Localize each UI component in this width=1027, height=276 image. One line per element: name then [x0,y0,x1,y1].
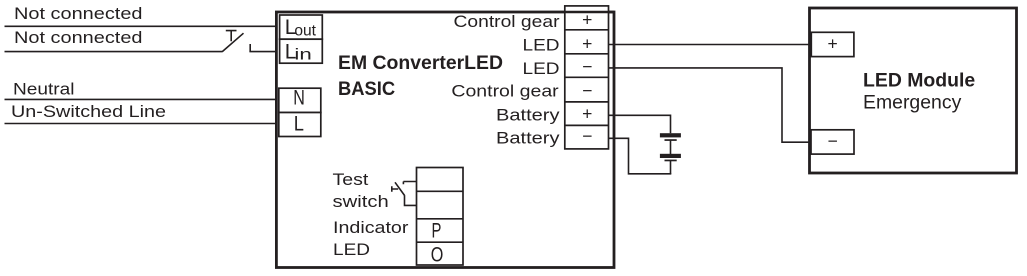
svg-text:Test: Test [333,171,369,189]
wire: EM box top edge crossing strip cell 1 [565,11,614,14]
svg-text:Control gear: Control gear [454,13,561,31]
terminal box Lout [280,15,323,39]
svg-text:Battery: Battery [496,106,560,124]
svg-text:LED: LED [333,241,370,259]
EM converter box outline [276,12,614,268]
module terminal box - [811,130,854,154]
svg-text:Indicator: Indicator [333,219,409,237]
svg-text:Control gear: Control gear [451,82,559,100]
wire: Neutral to N [5,98,278,100]
terminal label Lout text [285,16,317,40]
svg-text:Neutral: Neutral [13,80,75,98]
wire: LED- to module - [609,68,810,142]
wire: Not connected line 1 to Lout [5,25,278,27]
svg-text:Battery: Battery [496,129,560,147]
wire: Battery+ to battery top [609,115,671,133]
svg-text:Emergency: Emergency [863,92,962,113]
svg-text:+: + [827,33,837,53]
svg-text:−: − [582,57,592,77]
battery BT1 plates [660,133,681,161]
wire: battery bottom lead [670,161,672,174]
wire: LED+ to module + [609,44,810,46]
wire: test switch bottom contact to strip row2 [405,195,417,205]
switch S2 blade (test switch, open) [395,182,405,195]
wire: switch to Lin [249,51,277,53]
svg-text:−: − [582,81,592,101]
right terminal strip outline [565,6,609,149]
right terminal strip dividers [565,30,609,126]
svg-text:+: + [582,104,592,124]
wire: battery inter-cell link [670,141,672,154]
module terminal box + [811,32,854,56]
wire: Un-Switched Line to L [5,123,278,125]
wire: test switch top contact to strip row1 [403,182,416,185]
switch S2 actuator T [392,186,398,191]
svg-text:in: in [294,47,311,64]
svg-text:Not connected: Not connected [14,29,143,47]
terminal box N [279,88,321,112]
test switch strip dividers [417,191,464,242]
svg-text:+: + [582,9,592,29]
svg-text:EM ConverterLED: EM ConverterLED [338,53,503,74]
svg-text:O: O [431,244,444,267]
svg-text:−: − [582,126,592,146]
svg-text:BASIC: BASIC [338,79,395,100]
svg-text:L: L [294,112,304,135]
svg-text:switch: switch [333,193,389,211]
terminal box Lin [280,39,323,63]
switch S1 blade (mains switch, open) [222,33,244,52]
svg-text:Un-Switched Line: Un-Switched Line [11,103,166,121]
test switch terminal strip outline [417,168,464,266]
svg-text:P: P [432,220,442,243]
wire: Not connected line 2 to switch [5,51,223,53]
svg-text:out: out [294,22,316,39]
switch S1 actuator T [226,31,237,42]
terminal label Lin text [285,40,312,63]
wire: Battery- return [609,138,672,174]
LED module box outline [810,8,1017,173]
svg-text:LED: LED [523,60,560,78]
svg-text:LED Module: LED Module [863,71,975,92]
terminal box L [279,113,321,137]
svg-text:Not connected: Not connected [14,5,143,23]
svg-text:−: − [827,131,837,151]
svg-text:N: N [293,87,305,110]
svg-text:+: + [582,33,592,53]
svg-text:LED: LED [523,36,560,54]
switch S1 right contact tick [249,44,251,52]
